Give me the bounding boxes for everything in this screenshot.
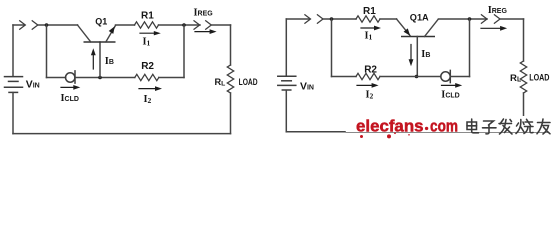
svg-text:R2: R2 [141, 61, 154, 72]
wire middle rail segment 3 [159, 77, 184, 79]
wire left vertical bottom (right ckt) [285, 90, 287, 132]
wire right vertical top (right ckt) [523, 19, 525, 61]
svg-text:R2: R2 [364, 65, 377, 76]
wire middle rail segment 2 [75, 77, 135, 79]
wire middle rail segment 1 (right ckt) [332, 76, 357, 78]
wire middle rail segment 1 [47, 77, 66, 79]
svg-text:RL: RL [215, 77, 226, 88]
wire top rail segment A [13, 24, 25, 26]
wire base of Q1A [416, 37, 418, 77]
wire CLD-loop right vertical (right ckt) [469, 19, 471, 77]
resistor R2 (left ckt) [135, 74, 159, 80]
junction node (top rail / sense loop, left ckt) [45, 23, 49, 27]
resistor R1 (right ckt) [356, 16, 380, 22]
svg-text:LOAD: LOAD [239, 77, 258, 87]
current flow chevron 1 (top-left, left ckt) [20, 21, 26, 29]
current flow chevron 1 (top-left, right ckt) [305, 15, 311, 23]
current arrow ICLD (left ckt) [61, 86, 77, 88]
battery VIN (right) [278, 76, 296, 90]
transistor Q1A base bar [401, 36, 435, 38]
current arrow IB (right ckt, pointing down) [410, 45, 412, 63]
junction node (top rail / sense loop right, left ckt) [182, 23, 186, 27]
svg-text:I1: I1 [365, 31, 373, 42]
wire right vertical bottom (left ckt) [230, 93, 232, 134]
wire left vertical top (battery+ to top rail) [12, 25, 14, 76]
resistor RL (left ckt) [227, 65, 233, 93]
current arrow IB (left ckt, pointing up) [92, 52, 94, 69]
watermark chinese char 发 [499, 119, 512, 134]
wire middle rail segment 3 (right ckt) [450, 76, 469, 78]
wire top rail segment C (emitter to R1) [116, 24, 135, 26]
CLD D1 (current limiting diode, right ckt) [441, 70, 451, 82]
svg-text:Q1A: Q1A [410, 12, 429, 22]
current flow chevron 1 (IREG, right ckt) [481, 15, 487, 23]
current arrow I2 (left ckt) [139, 88, 159, 90]
wire sense-loop left vertical [46, 25, 48, 78]
current arrow I2 (right ckt) [357, 84, 375, 86]
current arrow I1 (right ckt) [361, 27, 378, 29]
svg-text:LOAD: LOAD [529, 73, 549, 84]
wire base of Q1 [99, 42, 101, 78]
junction node (base / middle rail, left ckt) [98, 76, 102, 80]
current arrow IREG solid (left ckt) [195, 31, 213, 33]
watermark chinese char 电 [467, 119, 479, 133]
svg-text:ICLD: ICLD [61, 93, 79, 104]
current flow chevron 2 (IREG, right ckt) [494, 15, 500, 23]
battery VIN (left) [5, 77, 23, 93]
wire top rail segment D [159, 24, 201, 26]
svg-text:I2: I2 [366, 90, 374, 101]
svg-text:IB: IB [105, 56, 114, 67]
transistor Q1 emitter lead with arrow [106, 26, 116, 43]
wire middle rail segment 2 (right ckt) [380, 76, 441, 78]
svg-text:VIN: VIN [26, 80, 40, 91]
junction node (top rail / CLD loop, right ckt) [468, 17, 472, 21]
svg-text:ICLD: ICLD [441, 90, 459, 101]
current flow chevron 2 (IREG, left ckt) [206, 21, 212, 29]
wire top rail segment C (right ckt) [380, 18, 397, 20]
svg-text:IREG: IREG [488, 5, 508, 16]
wire right vertical bottom (right ckt) [523, 93, 525, 132]
wire left vertical bottom [12, 93, 14, 134]
current flow chevron 1 (IREG, left ckt) [194, 21, 200, 29]
watermark chinese char 烧 [516, 119, 533, 133]
transistor Q1A emitter lead with arrow [397, 19, 411, 36]
wire bottom rail (left ckt) [13, 133, 231, 135]
junction node (base / middle rail, right ckt) [415, 75, 419, 79]
resistor R1 (left ckt) [135, 22, 159, 28]
watermark background [346, 116, 559, 140]
wire top rail segment A (right ckt) [286, 18, 309, 20]
wire right vertical top (left ckt) [230, 25, 232, 65]
svg-text:Q1: Q1 [95, 17, 107, 27]
watermark chinese char 友 [537, 119, 550, 134]
wire top rail segment D (right ckt) [439, 18, 488, 20]
wire sense-loop right vertical (left ckt) [183, 25, 185, 78]
junction node (top rail / sense loop, right ckt) [330, 17, 334, 21]
wire left vertical top (right ckt) [285, 19, 287, 76]
svg-text:elecfans: elecfans [356, 117, 424, 136]
wire bottom rail (right ckt) [286, 131, 345, 133]
transistor Q1A collector lead [425, 20, 439, 37]
wire top rail segment B (right ckt) [323, 18, 356, 20]
wire top rail segment B [38, 24, 78, 26]
svg-text:RL: RL [510, 73, 521, 84]
wire sense-loop left vertical (right ckt) [331, 19, 333, 77]
current arrow ICLD (right ckt) [442, 84, 459, 86]
svg-text:VIN: VIN [300, 81, 314, 92]
svg-text:R1: R1 [363, 6, 376, 17]
svg-text:com: com [430, 117, 458, 136]
CLD D1 (current limiting diode, left ckt) [66, 71, 76, 83]
svg-text:I1: I1 [143, 37, 151, 48]
wire top rail segment E (right ckt) [500, 18, 524, 20]
svg-text:IB: IB [421, 49, 430, 60]
wire top rail segment E [211, 24, 230, 26]
current flow chevron 2 (top-left, left ckt) [32, 21, 38, 29]
svg-text:I2: I2 [144, 94, 152, 105]
resistor RL (right ckt) [520, 61, 526, 93]
svg-text:IREG: IREG [194, 7, 214, 18]
current arrow I1 (left ckt) [140, 32, 155, 34]
watermark chinese char 子 [483, 121, 497, 134]
current arrow IREG solid (right ckt) [481, 27, 504, 29]
transistor Q1 base bar [84, 41, 116, 43]
svg-text:R1: R1 [141, 11, 154, 22]
current flow chevron 2 (top-left, right ckt) [317, 15, 323, 23]
watermark logo ink splats [360, 132, 410, 138]
transistor Q1 collector lead [78, 25, 91, 42]
resistor R2 (right ckt) [356, 73, 380, 79]
watermark underline [346, 132, 549, 134]
